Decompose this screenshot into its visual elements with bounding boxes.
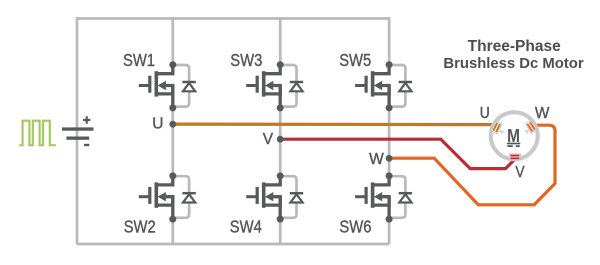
svg-text:U: U — [480, 105, 490, 122]
svg-text:Brushless Dc Motor: Brushless Dc Motor — [443, 56, 583, 72]
svg-text:SW2: SW2 — [124, 218, 156, 237]
svg-text:SW1: SW1 — [123, 51, 155, 70]
svg-text:U: U — [152, 116, 163, 133]
svg-text:SW5: SW5 — [339, 51, 371, 70]
svg-text:SW6: SW6 — [339, 218, 371, 237]
svg-text:V: V — [263, 131, 274, 148]
svg-text:V: V — [515, 164, 524, 181]
svg-text:SW4: SW4 — [230, 218, 262, 237]
svg-text:W: W — [369, 151, 384, 168]
svg-text:SW3: SW3 — [230, 51, 262, 70]
svg-text:W: W — [535, 105, 550, 122]
svg-text:Three-Phase: Three-Phase — [468, 38, 561, 55]
